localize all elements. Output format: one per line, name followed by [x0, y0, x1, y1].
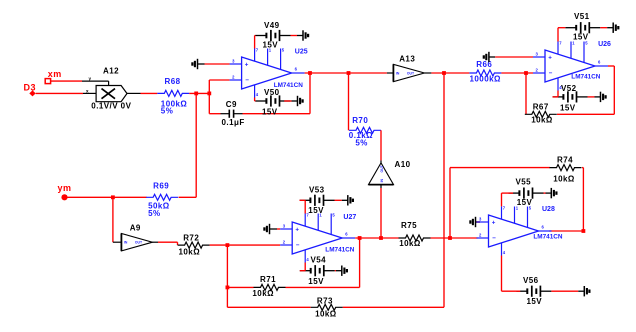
- wire V53 to ground: [335, 199, 342, 201]
- wire R68 to U25 inverting node: [189, 92, 209, 94]
- wire V52 to ground: [588, 96, 595, 98]
- op-amp U25 LM741CN: [230, 48, 308, 98]
- wire A9 output to R72: [158, 242, 178, 245]
- wire V54 to ground: [335, 270, 336, 272]
- wire C9 to U25 output: [243, 73, 311, 114]
- svg-text:10kΩ: 10kΩ: [315, 310, 337, 319]
- svg-text:LM741CN: LM741CN: [533, 234, 563, 241]
- wire R74 to U28 output: [549, 168, 583, 231]
- wire R70 to A10 output: [380, 130, 382, 160]
- svg-text:R70: R70: [352, 116, 368, 125]
- wire node down to C9 feedback: [209, 93, 220, 113]
- ground at V50: [292, 96, 303, 106]
- svg-text:A13: A13: [399, 54, 415, 63]
- svg-text:R67: R67: [533, 103, 549, 112]
- svg-text:A10: A10: [395, 160, 411, 169]
- wire V50 to ground: [284, 100, 291, 102]
- wire V55 to U28 pin7: [502, 193, 514, 206]
- junction ym / A9 branch: [111, 195, 115, 199]
- svg-text:5%: 5%: [355, 138, 367, 147]
- svg-text:−: −: [245, 77, 249, 84]
- svg-text:OUT: OUT: [380, 164, 384, 172]
- node ym (input terminal): [58, 183, 72, 200]
- wire V53 to U27 pin7: [300, 200, 306, 213]
- svg-text:IN: IN: [380, 178, 384, 182]
- wire node down to R73: [227, 287, 310, 307]
- battery V53 15V: [300, 185, 335, 214]
- ground at U28 noninverting input: [470, 217, 480, 227]
- svg-text:+: +: [492, 219, 496, 226]
- wire ground to U25 pin3: [205, 63, 230, 65]
- svg-text:10kΩ: 10kΩ: [399, 239, 421, 248]
- battery V49 15V: [256, 21, 291, 50]
- svg-text:LM741CN: LM741CN: [325, 246, 355, 253]
- wire U27 pin4 to V54: [300, 263, 305, 271]
- resistor R70 0.1k 5%: [349, 116, 381, 147]
- ground at V49: [297, 30, 308, 40]
- svg-text:C9: C9: [226, 100, 237, 109]
- wire V55 to ground: [544, 192, 546, 194]
- svg-text:U28: U28: [542, 206, 555, 213]
- resistor R68 100k 5%: [157, 77, 189, 116]
- wire V49 to ground: [291, 35, 298, 37]
- wire R75 to U28 pin2: [431, 237, 478, 239]
- battery V51 15V: [565, 12, 600, 41]
- battery V56 15V: [516, 276, 551, 306]
- ground at U27 noninverting input: [264, 224, 277, 234]
- wire ym line: [65, 196, 147, 198]
- svg-text:0.1V/V 0V: 0.1V/V 0V: [91, 102, 131, 111]
- wire U26 pin4 to V52: [553, 91, 559, 97]
- ground at V54: [336, 266, 347, 276]
- wire ym branch down to A9: [113, 197, 122, 242]
- ground at V53: [342, 195, 353, 205]
- svg-text:+: +: [295, 226, 299, 233]
- resistor R74 10k: [550, 155, 582, 183]
- svg-text:R74: R74: [557, 155, 573, 164]
- junction R66/R67 node: [524, 71, 528, 75]
- svg-text:D3: D3: [24, 82, 36, 92]
- svg-text:R66: R66: [476, 60, 492, 69]
- svg-text:5%: 5%: [148, 209, 160, 218]
- svg-text:R72: R72: [183, 233, 199, 242]
- battery V54 15V: [300, 256, 335, 286]
- wire U28 input node to R74: [450, 168, 550, 238]
- junction R71/R73 node: [226, 286, 230, 290]
- junction A10 branch: [379, 236, 383, 240]
- wire U25 pin4 to V50: [254, 98, 257, 102]
- multiplier A12: [91, 67, 131, 111]
- wire R66 to U26 pin2: [501, 72, 533, 74]
- wire R69 up to R68 node: [179, 93, 197, 197]
- wire R71 to U27 output: [286, 238, 360, 287]
- svg-text:V52: V52: [561, 84, 577, 93]
- svg-text:A12: A12: [103, 67, 119, 76]
- svg-text:+: +: [548, 54, 552, 61]
- wire A13 node down to R73 line: [343, 73, 444, 307]
- resistor R69 50k 5%: [146, 182, 178, 218]
- svg-text:5%: 5%: [161, 107, 173, 116]
- svg-text:10kΩ: 10kΩ: [252, 289, 274, 298]
- resistor R71 10k: [252, 275, 285, 298]
- svg-text:V50: V50: [264, 88, 280, 97]
- svg-text:15V: 15V: [517, 198, 533, 207]
- svg-text:IN: IN: [396, 71, 400, 75]
- resistor R66 1000k: [469, 60, 501, 83]
- svg-text:R73: R73: [317, 296, 333, 305]
- resistor R73 10k: [311, 296, 343, 318]
- junction R68/R69: [194, 92, 198, 96]
- node xm (input connector): [45, 69, 62, 84]
- wire U27 output to R75: [355, 237, 398, 239]
- svg-text:U27: U27: [343, 214, 356, 221]
- buffer A9: [121, 223, 158, 251]
- wire U27 node down to R71: [227, 245, 253, 287]
- wire node to U25 pin2: [209, 80, 229, 93]
- svg-text:15V: 15V: [262, 107, 278, 116]
- svg-text:A9: A9: [130, 223, 141, 232]
- svg-text:OUT: OUT: [135, 241, 143, 245]
- wire V51 to U26 pin7: [558, 28, 565, 42]
- svg-text:y: y: [89, 76, 92, 81]
- ground at V52: [595, 92, 606, 102]
- op-amp U26 LM741CN: [533, 41, 611, 91]
- buffer A13: [387, 54, 432, 81]
- junction R70 branch: [347, 71, 351, 75]
- junction U28 output corner: [582, 229, 586, 233]
- battery V50 15V: [256, 88, 291, 116]
- ground at V51: [607, 23, 618, 33]
- svg-text:R71: R71: [260, 275, 276, 284]
- svg-text:V56: V56: [523, 276, 539, 285]
- svg-text:LM741CN: LM741CN: [571, 74, 601, 81]
- svg-text:U25: U25: [295, 48, 308, 55]
- wire R72 to U27 pin2: [210, 244, 281, 246]
- junction A13 output node: [442, 71, 446, 75]
- wire A10 input from U27 output: [380, 188, 382, 238]
- svg-text:1000kΩ: 1000kΩ: [470, 74, 501, 83]
- wire U25 output line: [305, 72, 387, 74]
- wire V51 to ground: [600, 27, 607, 29]
- junction U27 summing node: [226, 243, 230, 247]
- svg-text:ym: ym: [58, 183, 72, 193]
- ground at V56: [578, 286, 589, 296]
- svg-text:V54: V54: [311, 256, 327, 265]
- junction U25 output / C9: [308, 71, 312, 75]
- svg-text:−: −: [296, 242, 300, 249]
- svg-text:R68: R68: [165, 77, 181, 86]
- op-amp U27 LM741CN: [280, 213, 356, 263]
- wire D3 to A12 x-input: [36, 89, 96, 94]
- ground at U26 noninverting input: [484, 52, 495, 62]
- svg-text:15V: 15V: [308, 206, 324, 215]
- capacitor C9 0.1uF: [221, 100, 245, 127]
- svg-text:xm: xm: [48, 69, 62, 79]
- svg-text:V55: V55: [516, 177, 532, 186]
- svg-text:0.1μF: 0.1μF: [222, 118, 245, 127]
- svg-text:x: x: [86, 89, 89, 94]
- wire U28 pin4 to V56: [502, 256, 521, 292]
- svg-text:R69: R69: [153, 182, 169, 191]
- wire ground to U27 pin3: [277, 228, 280, 230]
- svg-text:15V: 15V: [263, 41, 279, 50]
- wire V49 to U25 pin7: [254, 36, 257, 49]
- buffer A10: [369, 160, 411, 188]
- wire R67 to U26 output: [557, 66, 614, 114]
- ground at U25 noninverting input: [192, 59, 204, 69]
- svg-text:OUT: OUT: [407, 71, 415, 75]
- wire U26 pin2 node down to R67: [525, 73, 527, 114]
- svg-text:V53: V53: [309, 185, 325, 194]
- node D3 (input connector): [24, 82, 36, 96]
- resistor R72 10k: [178, 233, 210, 256]
- svg-text:10kΩ: 10kΩ: [531, 116, 553, 125]
- svg-text:15V: 15V: [573, 32, 589, 41]
- wire ground to U28 pin3: [477, 221, 481, 223]
- svg-text:15V: 15V: [527, 297, 543, 306]
- junction U25 summing node: [207, 92, 211, 96]
- svg-text:IN: IN: [124, 241, 128, 245]
- wire xm to A12 y-input: [51, 76, 109, 85]
- svg-text:U26: U26: [598, 41, 611, 48]
- svg-text:−: −: [492, 235, 496, 242]
- battery V52 15V: [553, 84, 588, 112]
- svg-text:−: −: [549, 70, 553, 77]
- battery V55 15V: [509, 177, 544, 207]
- svg-text:10kΩ: 10kΩ: [553, 174, 575, 183]
- junction U27 output: [358, 236, 362, 240]
- resistor R75 10k: [399, 221, 431, 248]
- resistor R67 10k: [525, 103, 557, 125]
- svg-text:R75: R75: [401, 221, 417, 230]
- svg-text:15V: 15V: [308, 277, 324, 286]
- wire ground to U26 pin3: [495, 56, 533, 58]
- wire A13 output to R66: [431, 72, 469, 74]
- wire V56 to ground: [551, 290, 578, 292]
- ground at V55: [546, 188, 557, 198]
- svg-text:V51: V51: [574, 12, 590, 21]
- svg-text:10kΩ: 10kΩ: [179, 248, 201, 257]
- svg-text:+: +: [245, 61, 249, 68]
- svg-text:15V: 15V: [560, 103, 576, 112]
- junction U28 summing node: [448, 236, 452, 240]
- op-amp U28 LM741CN: [477, 206, 563, 256]
- wire main node to R70: [348, 73, 350, 130]
- wire A12 output to R68: [127, 92, 157, 94]
- svg-text:V49: V49: [264, 21, 280, 30]
